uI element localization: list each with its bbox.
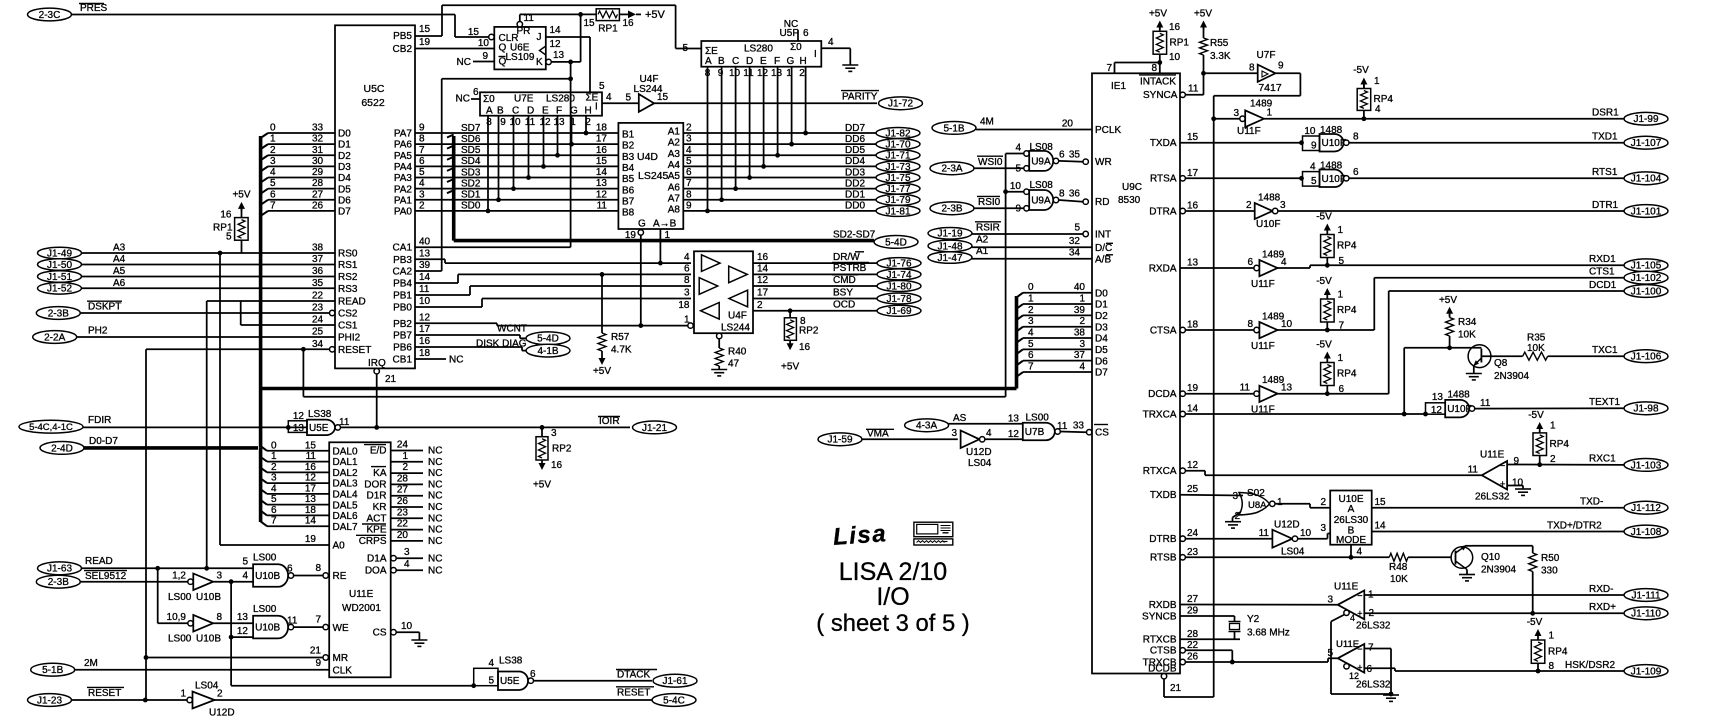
svg-text:26LS32: 26LS32 — [1356, 680, 1391, 691]
svg-text:14: 14 — [550, 25, 562, 36]
wire CTS1 — [1278, 329, 1375, 331]
svg-text:D1: D1 — [338, 140, 351, 151]
svg-text:10: 10 — [401, 621, 413, 632]
svg-text:J1-51: J1-51 — [47, 272, 72, 283]
svg-text:CRPS: CRPS — [359, 536, 387, 547]
svg-text:J1-103: J1-103 — [1631, 460, 1662, 471]
svg-text:+5V: +5V — [1149, 9, 1167, 20]
svg-text:4: 4 — [404, 559, 410, 570]
svg-text:21: 21 — [385, 374, 397, 385]
svg-text:1,2: 1,2 — [172, 571, 186, 582]
resistor R35 10K — [1481, 355, 1522, 357]
svg-text:6: 6 — [1028, 350, 1034, 361]
WD2001 DAL0-7 pins — [267, 450, 329, 452]
receiver enable pin12 — [1344, 664, 1349, 669]
inverter U10B LS00 pins 1,2-3 — [188, 579, 193, 584]
svg-text:MR: MR — [333, 653, 349, 664]
wire RESET — [72, 699, 188, 701]
svg-text:1488: 1488 — [1448, 390, 1471, 401]
svg-text:DD2: DD2 — [845, 178, 865, 189]
overline DR/W — [855, 251, 864, 253]
svg-text:13: 13 — [596, 178, 608, 189]
svg-text:3: 3 — [217, 571, 223, 582]
svg-text:6: 6 — [1247, 257, 1253, 268]
svg-text:37: 37 — [1074, 350, 1086, 361]
svg-text:IRQ: IRQ — [368, 358, 386, 369]
svg-text:J1-73: J1-73 — [885, 162, 910, 173]
svg-text:TXDB: TXDB — [1150, 490, 1177, 501]
svg-text:RESET: RESET — [88, 688, 121, 699]
svg-text:U5E: U5E — [309, 423, 329, 434]
svg-text:NC: NC — [428, 554, 442, 565]
connector 2-3B SEL9512 — [36, 575, 80, 588]
svg-text:J1-77: J1-77 — [885, 184, 910, 195]
svg-text:LS38: LS38 — [499, 656, 523, 667]
svg-text:10: 10 — [1010, 181, 1022, 192]
svg-text:14: 14 — [596, 167, 608, 178]
wire RXD+ from J1-110 — [1364, 612, 1624, 614]
svg-text:1: 1 — [1338, 290, 1344, 301]
svg-text:J1-107: J1-107 — [1631, 138, 1662, 149]
svg-text:TEXT1: TEXT1 — [1589, 397, 1621, 408]
buffer U4F LS244 parity out — [639, 94, 654, 112]
svg-text:24: 24 — [1187, 528, 1199, 539]
svg-text:DTR1: DTR1 — [1592, 200, 1619, 211]
svg-text:+5V: +5V — [593, 366, 611, 377]
svg-text:TRXCA: TRXCA — [1143, 409, 1177, 420]
svg-text:Lisa: Lisa — [832, 520, 888, 551]
svg-text:7: 7 — [271, 516, 277, 527]
svg-text:U7B: U7B — [1025, 427, 1045, 438]
svg-text:J1-105: J1-105 — [1631, 261, 1662, 272]
svg-text:14: 14 — [1375, 521, 1387, 532]
svg-text:J1-75: J1-75 — [885, 173, 910, 184]
svg-text:13: 13 — [1187, 258, 1199, 269]
svg-text:11: 11 — [1259, 528, 1270, 539]
U5C IRQ pin21 — [374, 369, 379, 374]
svg-text:PB2: PB2 — [393, 319, 412, 330]
svg-text:31: 31 — [312, 145, 324, 156]
svg-text:RP2: RP2 — [552, 444, 572, 455]
resistor network RP4 pin 6 pulldown — [1321, 363, 1335, 386]
overline KPE — [362, 523, 386, 525]
svg-text:U10B: U10B — [196, 634, 221, 645]
U10E pin14 TXD+ — [1372, 531, 1624, 533]
receiver U11E 26LS32 RXD — [1338, 591, 1365, 620]
connector J1-23 RESET — [28, 694, 72, 707]
svg-text:CTS1: CTS1 — [1589, 267, 1615, 278]
svg-text:PRES: PRES — [80, 3, 108, 14]
svg-text:12: 12 — [237, 626, 249, 637]
svg-text:1: 1 — [1338, 225, 1344, 236]
svg-text:+5V: +5V — [645, 9, 666, 21]
svg-text:B: B — [718, 56, 725, 67]
svg-text:4: 4 — [242, 571, 248, 582]
svg-text:7: 7 — [315, 615, 321, 626]
svg-text:11: 11 — [743, 68, 754, 79]
svg-text:LS00: LS00 — [1026, 413, 1050, 424]
svg-text:16: 16 — [622, 18, 634, 29]
svg-text:CA2: CA2 — [393, 267, 413, 278]
U6E pin14 J wire to U7E pin5 — [546, 36, 590, 38]
svg-text:10,9: 10,9 — [167, 612, 187, 623]
svg-text:DD6: DD6 — [845, 134, 865, 145]
wire DTR1 — [1278, 210, 1624, 212]
svg-text:3: 3 — [270, 156, 276, 167]
connector 2-3B RSI0 — [930, 202, 974, 215]
svg-text:G: G — [570, 106, 578, 117]
svg-text:3: 3 — [684, 288, 690, 299]
svg-text:DAL2: DAL2 — [333, 468, 358, 479]
resistor R48 10K — [1389, 553, 1408, 561]
svg-text:5: 5 — [419, 167, 425, 178]
svg-text:20: 20 — [1062, 119, 1074, 130]
svg-text:U9C: U9C — [1122, 182, 1142, 193]
inverter 1489 U11F CTSA — [1185, 329, 1254, 331]
svg-text:36: 36 — [312, 266, 324, 277]
wire TEXT1 — [1475, 407, 1624, 409]
svg-text:D6: D6 — [1095, 356, 1108, 367]
svg-text:D1: D1 — [1095, 300, 1108, 311]
svg-text:10: 10 — [729, 68, 741, 79]
svg-text:A: A — [705, 56, 712, 67]
svg-text:DD0: DD0 — [845, 201, 865, 212]
svg-text:FDIR: FDIR — [88, 415, 111, 426]
svg-text:6: 6 — [684, 263, 690, 274]
svg-text:J1-63: J1-63 — [47, 564, 72, 575]
wire RTXCB — [1180, 638, 1240, 640]
svg-text:7417: 7417 — [1258, 82, 1282, 94]
svg-text:D1A: D1A — [367, 554, 387, 565]
svg-text:TXD1: TXD1 — [1592, 132, 1618, 143]
svg-text:4M: 4M — [980, 117, 994, 128]
svg-text:+5V: +5V — [232, 190, 250, 201]
svg-text:U12D: U12D — [966, 447, 992, 458]
svg-text:12: 12 — [596, 189, 608, 200]
svg-text:22: 22 — [397, 519, 409, 530]
svg-text:IE1: IE1 — [1111, 81, 1126, 92]
svg-text:11: 11 — [1240, 383, 1251, 394]
U11E pin10 to ground — [1507, 485, 1523, 487]
svg-text:U10F: U10F — [1256, 219, 1280, 230]
svg-text:DD3: DD3 — [845, 167, 865, 178]
svg-text:6: 6 — [1059, 150, 1065, 161]
svg-text:Σ0: Σ0 — [483, 94, 495, 105]
svg-text:E: E — [760, 56, 767, 67]
wire HSK/DSR2 — [1364, 667, 1395, 669]
svg-text:LS04: LS04 — [1281, 547, 1305, 558]
ground — [1225, 521, 1241, 523]
resistor R50 330 — [1532, 546, 1534, 553]
svg-text:17: 17 — [757, 288, 769, 299]
svg-text:PA4: PA4 — [394, 162, 413, 173]
svg-text:1: 1 — [1550, 421, 1556, 432]
svg-text:D/C: D/C — [1095, 243, 1112, 254]
svg-text:2-2A: 2-2A — [44, 332, 65, 343]
svg-text:DTRA: DTRA — [1149, 206, 1177, 217]
DD0-DD7 wires to connectors — [683, 132, 877, 134]
inverter 1489 U11F DCDA — [1185, 393, 1254, 395]
svg-text:5: 5 — [488, 676, 494, 687]
svg-text:6: 6 — [803, 28, 809, 39]
svg-text:5: 5 — [625, 93, 631, 104]
svg-text:2: 2 — [757, 300, 763, 311]
inverter 1488 U10F DTR1 — [1185, 210, 1254, 212]
svg-text:8: 8 — [1059, 189, 1065, 200]
svg-text:U10B: U10B — [255, 571, 280, 582]
inverter 1489 U11F RXDA — [1180, 267, 1254, 269]
svg-text:J1-78: J1-78 — [886, 294, 911, 305]
svg-text:U8A: U8A — [1248, 500, 1267, 511]
svg-text:U11E: U11E — [1480, 450, 1505, 461]
svg-text:J1-59: J1-59 — [827, 435, 852, 446]
gate U8A S02 NOR — [1180, 494, 1243, 497]
svg-text:B2: B2 — [622, 141, 635, 152]
svg-text:25: 25 — [1187, 484, 1199, 495]
svg-text:16: 16 — [596, 145, 608, 156]
connector 2-3C — [28, 8, 72, 21]
svg-text:WR: WR — [1095, 157, 1112, 168]
svg-text:D5: D5 — [1095, 345, 1108, 356]
svg-text:PARITY: PARITY — [842, 92, 878, 103]
svg-text:D0: D0 — [1095, 288, 1108, 299]
svg-text:10K: 10K — [1390, 574, 1408, 585]
gate U5E LS38 DTACK — [471, 683, 476, 688]
svg-text:0: 0 — [1028, 282, 1034, 293]
svg-text:A: A — [1348, 504, 1355, 515]
svg-text:3: 3 — [1320, 523, 1326, 534]
svg-text:READ: READ — [338, 297, 366, 308]
wire A2 — [972, 246, 1092, 248]
svg-text:D3: D3 — [1095, 322, 1108, 333]
svg-text:DAL0: DAL0 — [333, 446, 358, 457]
svg-text:DAL4: DAL4 — [333, 489, 358, 500]
svg-text:J1-109: J1-109 — [1631, 666, 1662, 677]
svg-text:4: 4 — [684, 252, 690, 263]
svg-text:16: 16 — [220, 210, 232, 221]
svg-text:3: 3 — [951, 428, 957, 439]
svg-text:CB1: CB1 — [393, 355, 413, 366]
svg-text:INTACK: INTACK — [1140, 77, 1176, 88]
svg-text:15: 15 — [419, 24, 431, 35]
resistor network RP4 pin 7 pulldown — [1321, 299, 1335, 322]
svg-text:12: 12 — [305, 473, 317, 484]
svg-text:U5E: U5E — [500, 676, 520, 687]
receiver enable pin4 — [1344, 610, 1349, 615]
svg-text:4: 4 — [1375, 104, 1381, 115]
svg-text:U10F: U10F — [1322, 174, 1346, 185]
U9C RD pin36 — [1083, 199, 1088, 204]
svg-text:13: 13 — [1281, 383, 1293, 394]
svg-text:14: 14 — [1187, 404, 1199, 415]
svg-text:8: 8 — [1549, 661, 1555, 672]
svg-text:22: 22 — [1187, 640, 1199, 651]
svg-text:U7F: U7F — [1257, 50, 1276, 61]
svg-text:17: 17 — [596, 134, 608, 145]
WD2001 A0 pin19 — [220, 544, 329, 546]
svg-text:U11E: U11E — [1336, 639, 1359, 650]
svg-text:D0: D0 — [338, 129, 351, 140]
svg-text:2: 2 — [1320, 497, 1326, 508]
svg-text:U11E: U11E — [349, 589, 374, 600]
svg-text:5: 5 — [682, 43, 688, 54]
svg-text:R48: R48 — [1389, 562, 1408, 573]
svg-text:SD2-SD7: SD2-SD7 — [833, 230, 876, 241]
svg-text:1: 1 — [270, 134, 276, 145]
svg-text:LS280: LS280 — [546, 94, 575, 105]
svg-text:19: 19 — [625, 230, 637, 241]
svg-text:5: 5 — [1074, 223, 1080, 234]
svg-text:12: 12 — [539, 117, 551, 128]
gate 1488 U10F TEXT1 — [1426, 403, 1446, 414]
connector 4-1B — [526, 344, 570, 357]
svg-text:U9A: U9A — [1031, 196, 1051, 207]
connector 5-4D — [874, 236, 918, 249]
net PARITY — [654, 102, 877, 104]
svg-text:8: 8 — [1249, 63, 1255, 74]
svg-text:RE: RE — [333, 571, 347, 582]
svg-text:17: 17 — [1187, 168, 1199, 179]
svg-text:TXC1: TXC1 — [1592, 345, 1618, 356]
wire PB0 to U4F pin3 — [415, 306, 482, 308]
svg-text:NC: NC — [428, 491, 442, 502]
svg-text:CMD: CMD — [833, 275, 856, 286]
svg-text:2: 2 — [1246, 200, 1252, 211]
svg-text:LS280: LS280 — [744, 44, 773, 55]
svg-text:J1-79: J1-79 — [885, 195, 910, 206]
svg-text:NC: NC — [784, 19, 798, 30]
svg-text:1: 1 — [1338, 353, 1344, 364]
svg-text:38: 38 — [1074, 328, 1086, 339]
svg-text:26LS30: 26LS30 — [1334, 515, 1369, 526]
svg-text:NC: NC — [428, 525, 442, 536]
svg-text:J1-108: J1-108 — [1631, 527, 1662, 538]
svg-text:12: 12 — [419, 313, 431, 324]
svg-text:29: 29 — [1187, 606, 1199, 617]
svg-text:SYNCA: SYNCA — [1143, 90, 1178, 101]
svg-text:11: 11 — [306, 451, 317, 462]
svg-text:A3: A3 — [668, 149, 681, 160]
svg-text:40: 40 — [1074, 282, 1086, 293]
U9C DCDB pin21 — [1161, 674, 1166, 679]
svg-text:21: 21 — [1170, 683, 1182, 694]
svg-text:6: 6 — [419, 156, 425, 167]
svg-text:26: 26 — [312, 200, 324, 211]
wire TXD1 — [1349, 142, 1624, 144]
overline E/D — [364, 444, 386, 446]
svg-text:1: 1 — [1549, 631, 1555, 642]
svg-text:RXDA: RXDA — [1149, 263, 1177, 274]
svg-text:PA5: PA5 — [394, 151, 413, 162]
U5F pin6 NC — [797, 30, 799, 41]
svg-text:U10B: U10B — [196, 592, 221, 603]
wire RSIR to INT — [972, 233, 1083, 235]
svg-text:I/O: I/O — [876, 583, 909, 611]
svg-text:24: 24 — [312, 315, 324, 326]
wire VMA — [862, 438, 958, 440]
svg-text:16: 16 — [305, 462, 317, 473]
svg-text:PA7: PA7 — [394, 129, 413, 140]
svg-text:2-3A: 2-3A — [941, 164, 962, 175]
svg-text:OCD: OCD — [833, 300, 855, 311]
svg-text:A4: A4 — [113, 254, 126, 265]
U4D pin1 direction — [659, 229, 661, 263]
svg-text:17: 17 — [305, 483, 317, 494]
resistor network RP4 pins 1-4 — [1357, 89, 1371, 111]
wire RXC1 — [1507, 464, 1624, 466]
wire TRXCB to receiver — [1185, 661, 1328, 663]
svg-text:D4: D4 — [1095, 334, 1108, 345]
svg-text:WD2001: WD2001 — [342, 603, 381, 614]
svg-text:LS38: LS38 — [308, 409, 332, 420]
wire RTXCA to receiver — [1185, 470, 1205, 472]
resistor R34 10K — [1446, 318, 1454, 337]
svg-text:4: 4 — [488, 658, 494, 669]
svg-text:J: J — [537, 32, 542, 43]
IC U9C 8530 SCC — [1092, 73, 1180, 673]
svg-text:2: 2 — [271, 462, 277, 473]
svg-text:PSTRB: PSTRB — [833, 263, 867, 274]
connector 2-3A WSI0 — [930, 162, 974, 175]
svg-text:NC: NC — [456, 94, 470, 105]
svg-text:4.7K: 4.7K — [611, 345, 632, 356]
receiver U11E 26LS32 RXC1 — [1482, 461, 1507, 490]
svg-text:DAL6: DAL6 — [333, 511, 358, 522]
wire RXD- from J1-111 — [1364, 594, 1624, 596]
U6E pin11 PR — [517, 22, 522, 27]
data bus vertical lower — [259, 448, 263, 522]
SD2-SD7 collector bus — [447, 135, 454, 138]
data bus vertical — [259, 136, 263, 448]
wire RXDB to receiver — [1180, 604, 1338, 606]
svg-text:15: 15 — [1187, 132, 1199, 143]
svg-text:5-4C,4-1C: 5-4C,4-1C — [29, 422, 73, 433]
svg-text:LS245: LS245 — [638, 170, 669, 182]
svg-text:MODE: MODE — [1336, 535, 1366, 546]
svg-text:13: 13 — [553, 50, 565, 61]
svg-text:1: 1 — [271, 451, 277, 462]
svg-text:R40: R40 — [728, 347, 747, 358]
svg-text:26LS32: 26LS32 — [1475, 492, 1510, 503]
svg-text:330: 330 — [1541, 566, 1558, 577]
svg-text:2N3904: 2N3904 — [1494, 371, 1529, 382]
svg-text:3: 3 — [404, 547, 410, 558]
svg-text:NC: NC — [428, 502, 442, 513]
svg-text:PB1: PB1 — [393, 291, 412, 302]
svg-text:3: 3 — [1028, 316, 1034, 327]
svg-text:H: H — [800, 56, 807, 67]
svg-text:D: D — [527, 106, 534, 117]
svg-text:J1-69: J1-69 — [886, 306, 911, 317]
svg-text:6: 6 — [270, 189, 276, 200]
svg-text:13: 13 — [237, 612, 249, 623]
svg-text:3: 3 — [1327, 595, 1333, 606]
svg-text:+: + — [1500, 479, 1505, 489]
U5C READ pin22 — [207, 300, 335, 302]
svg-text:27: 27 — [397, 485, 409, 496]
svg-text:RP1: RP1 — [598, 24, 618, 35]
svg-text:11: 11 — [1057, 421, 1068, 432]
svg-text:26LS32: 26LS32 — [1356, 621, 1391, 632]
svg-text:2-4D: 2-4D — [51, 443, 73, 454]
svg-text:10K: 10K — [1527, 343, 1545, 354]
svg-text:( sheet 3 of 5 ): ( sheet 3 of 5 ) — [816, 610, 969, 637]
svg-text:RP1: RP1 — [1170, 38, 1190, 49]
svg-text:CS2: CS2 — [338, 309, 358, 320]
gate U9A LS08 RD — [1024, 206, 1029, 211]
svg-text:DCDA: DCDA — [1148, 389, 1177, 400]
svg-text:-5V: -5V — [1527, 617, 1543, 628]
